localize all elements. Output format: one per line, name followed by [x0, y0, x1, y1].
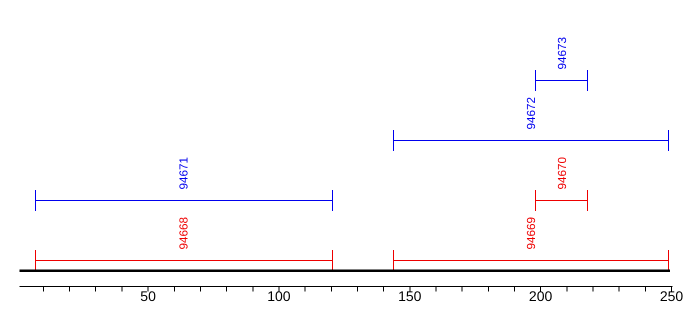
svg-text:50: 50: [140, 288, 156, 304]
feature 94671 (blue interval, third row left): [35, 190, 333, 211]
label 94668: [178, 217, 191, 250]
svg-text:94670: 94670: [556, 156, 569, 189]
ruler label 50: [140, 288, 156, 304]
label 94670: [556, 156, 569, 189]
ruler label 100: [267, 288, 291, 304]
feature 94673 (blue interval, top row): [535, 70, 588, 91]
label 94671: [178, 157, 191, 190]
feature 94668 (red interval, fourth row left): [35, 250, 333, 271]
svg-text:200: 200: [529, 288, 553, 304]
ruler minor ticks: [43, 287, 671, 292]
svg-text:94668: 94668: [178, 217, 191, 250]
ruler axis line: [20, 286, 673, 288]
ruler label 200: [529, 288, 553, 304]
sequence baseline (thick black bar): [19, 270, 670, 273]
feature 94669 (red interval, fourth row right): [393, 250, 669, 271]
label 94669: [525, 217, 538, 250]
ruler label 150: [398, 288, 422, 304]
svg-text:94669: 94669: [525, 217, 538, 250]
svg-text:100: 100: [267, 288, 291, 304]
svg-text:150: 150: [398, 288, 422, 304]
svg-text:94673: 94673: [556, 37, 569, 70]
svg-text:94671: 94671: [178, 157, 191, 190]
svg-text:94672: 94672: [525, 97, 538, 130]
feature 94670 (red interval, third row right): [535, 190, 588, 211]
feature 94672 (blue interval, second row): [393, 130, 669, 151]
ruler label 250: [660, 288, 684, 304]
label 94673: [556, 37, 569, 70]
svg-text:250: 250: [660, 288, 684, 304]
label 94672: [525, 97, 538, 130]
